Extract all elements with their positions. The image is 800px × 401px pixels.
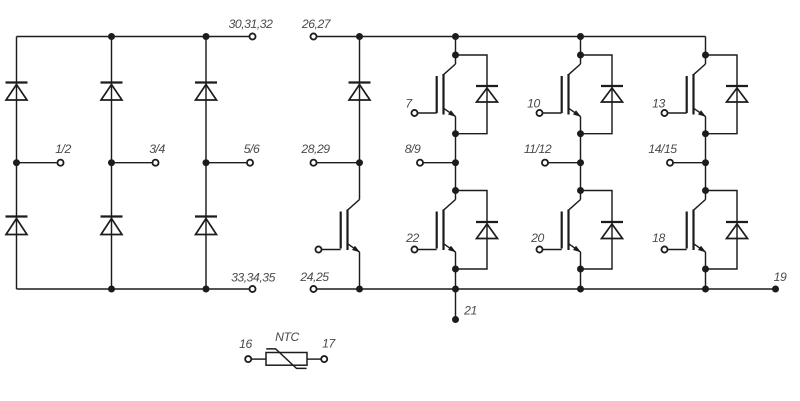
label 13	[652, 96, 665, 110]
svg-text:14/15: 14/15	[648, 142, 677, 156]
wire freewheel diode branch top leg 3	[706, 55, 738, 134]
node emitter junction bottom leg 1	[452, 266, 459, 273]
node emitter junction bottom leg 2	[577, 266, 584, 273]
wire freewheel diode branch top leg 1	[456, 55, 488, 134]
svg-text:NTC: NTC	[275, 330, 299, 344]
diode freewheel bottom leg 1	[476, 222, 498, 239]
node junction bottom bus	[108, 286, 115, 293]
terminal gate 20	[536, 246, 542, 252]
diode freewheel bottom leg 3	[726, 222, 748, 239]
wire auxiliary emitter lead 14/15	[673, 162, 705, 164]
wire rectifier leg 1 vertical	[16, 37, 18, 290]
diode freewheel bottom leg 2	[601, 222, 623, 239]
node emitter junction top leg 2	[577, 130, 584, 137]
diode rectifier bottom leg 1	[6, 217, 28, 235]
diode rectifier bottom leg 3	[195, 217, 217, 235]
label 30,31,32	[229, 17, 274, 31]
label 24,25	[299, 270, 329, 284]
terminal 16	[245, 356, 251, 362]
label 21	[463, 304, 477, 318]
node phase output junction leg 2	[577, 159, 584, 166]
node phase output junction leg 1	[452, 159, 459, 166]
wire auxiliary emitter lead 8/9	[423, 162, 455, 164]
terminal 5/6	[247, 160, 253, 166]
svg-text:1/2: 1/2	[55, 142, 71, 156]
wire DC+ top bus	[317, 36, 706, 38]
transistor IGBT bottom leg 2 (gate 20)	[562, 163, 581, 269]
node emitter junction top leg 1	[452, 130, 459, 137]
wire gate lead 18	[668, 249, 687, 251]
wire rectifier leg 3 vertical	[205, 37, 207, 290]
wire stub to terminal 21	[455, 289, 457, 320]
label 3/4	[149, 142, 165, 156]
terminal auxiliary 14/15	[667, 160, 673, 166]
node junction top bus	[203, 33, 210, 40]
node rectifier AC mid leg 2	[108, 159, 115, 166]
diode freewheel top leg 2	[601, 86, 623, 102]
svg-text:10: 10	[527, 96, 540, 110]
wire rectifier leg 2 vertical	[111, 37, 113, 290]
label 28,29	[300, 142, 330, 156]
svg-text:33,34,35: 33,34,35	[231, 271, 276, 285]
terminal gate 18	[661, 246, 667, 252]
node top bus junction leg 1	[452, 33, 459, 40]
wire rectifier positive top bus	[17, 36, 250, 38]
svg-text:22: 22	[405, 231, 419, 245]
wire NTC left lead	[251, 358, 266, 360]
terminal gate 22	[411, 246, 417, 252]
label 5/6	[244, 142, 260, 156]
node collector junction bottom leg 3	[702, 187, 709, 194]
svg-text:18: 18	[652, 231, 665, 245]
node brake top bus junction	[356, 33, 363, 40]
svg-text:8/9: 8/9	[405, 142, 421, 156]
wire rectifier negative bottom bus	[17, 288, 250, 290]
transistor IGBT top leg 1 (gate 7)	[437, 55, 456, 134]
label 26,27	[301, 17, 332, 31]
wire gate lead 10	[543, 112, 562, 114]
terminal brake gate	[315, 246, 321, 252]
node collector junction top leg 2	[577, 52, 584, 59]
svg-text:5/6: 5/6	[244, 142, 260, 156]
wire DC- bottom bus	[317, 288, 776, 290]
diode brake freewheel	[349, 83, 371, 101]
label 17	[322, 337, 336, 351]
label 33,34,35	[231, 271, 276, 285]
terminal 24,25	[310, 286, 316, 292]
wire freewheel diode branch bottom leg 2	[581, 191, 613, 270]
svg-text:3/4: 3/4	[149, 142, 165, 156]
wire AC input lead leg 2	[112, 162, 153, 164]
wire brake gate lead	[322, 249, 341, 251]
svg-text:13: 13	[652, 96, 665, 110]
transistor IGBT top leg 2 (gate 10)	[562, 55, 581, 134]
terminal 30,31,32	[249, 33, 255, 39]
wire NTC right lead	[307, 358, 321, 360]
wire top bus to collector leg 3	[705, 37, 707, 56]
node bottom bus junction leg 3	[702, 286, 709, 293]
wire freewheel diode branch top leg 2	[581, 55, 613, 134]
label 19	[774, 270, 787, 284]
terminal gate 10	[536, 110, 542, 116]
svg-text:26,27: 26,27	[301, 17, 332, 31]
label 7	[405, 96, 413, 110]
transistor IGBT top leg 3 (gate 13)	[687, 55, 706, 134]
wire emitter to bottom bus leg 2	[580, 269, 582, 289]
svg-text:24,25: 24,25	[299, 270, 329, 284]
terminal 17	[321, 356, 327, 362]
terminal 19 (solid)	[772, 286, 779, 293]
transistor IGBT bottom leg 1 (gate 22)	[437, 163, 456, 269]
node emitter junction top leg 3	[702, 130, 709, 137]
terminal gate 7	[411, 110, 417, 116]
transistor IGBT bottom leg 3 (gate 18)	[687, 163, 706, 269]
svg-text:21: 21	[463, 304, 477, 318]
svg-text:11/12: 11/12	[524, 142, 552, 156]
wire gate lead 13	[668, 112, 687, 114]
svg-text:17: 17	[322, 337, 336, 351]
wire emitter to phase node leg 2	[580, 134, 582, 163]
node junction top bus	[108, 33, 115, 40]
node bottom bus junction leg 2	[577, 286, 584, 293]
diode rectifier top leg 2	[101, 83, 123, 101]
diode rectifier bottom leg 2	[101, 217, 123, 235]
node rectifier AC mid leg 3	[203, 159, 210, 166]
wire top bus to collector leg 1	[455, 37, 457, 56]
diode rectifier top leg 3	[195, 83, 217, 101]
label 11/12	[524, 142, 552, 156]
terminal 33,34,35	[249, 286, 255, 292]
label 1/2	[55, 142, 71, 156]
diode freewheel top leg 1	[476, 86, 498, 102]
terminal 26,27	[310, 33, 316, 39]
terminal gate 13	[661, 110, 667, 116]
node bottom bus junction leg 1	[452, 286, 459, 293]
svg-text:16: 16	[239, 337, 252, 351]
node brake mid junction 28,29	[356, 159, 363, 166]
label NTC	[275, 330, 299, 344]
wire lead to terminal 28,29	[317, 162, 360, 164]
wire gate lead 20	[543, 249, 562, 251]
label 14/15	[648, 142, 677, 156]
terminal auxiliary 11/12	[542, 160, 548, 166]
diode rectifier top leg 1	[6, 83, 28, 101]
wire gate lead 22	[418, 249, 437, 251]
node brake emitter bottom bus junction	[356, 286, 363, 293]
svg-text:20: 20	[530, 231, 544, 245]
wire AC input lead leg 1	[17, 162, 58, 164]
label 22	[405, 231, 419, 245]
label 18	[652, 231, 665, 245]
wire emitter to phase node leg 1	[455, 134, 457, 163]
node top bus junction leg 2	[577, 33, 584, 40]
transistor brake IGBT	[341, 163, 360, 289]
diode freewheel top leg 3	[726, 86, 748, 102]
terminal 28,29	[310, 160, 316, 166]
thermistor NTC body	[266, 349, 307, 369]
wire gate lead 7	[418, 112, 437, 114]
wire emitter to phase node leg 3	[705, 134, 707, 163]
node collector junction bottom leg 1	[452, 187, 459, 194]
node emitter junction bottom leg 3	[702, 266, 709, 273]
node phase output junction leg 3	[702, 159, 709, 166]
svg-text:19: 19	[774, 270, 787, 284]
terminal 1/2	[57, 160, 63, 166]
wire emitter to bottom bus leg 3	[705, 269, 707, 289]
node collector junction bottom leg 2	[577, 187, 584, 194]
svg-text:28,29: 28,29	[300, 142, 330, 156]
wire AC input lead leg 3	[206, 162, 247, 164]
wire top bus to collector leg 2	[580, 37, 582, 56]
label 16	[239, 337, 252, 351]
label 20	[530, 231, 544, 245]
label 8/9	[405, 142, 421, 156]
node collector junction top leg 3	[702, 52, 709, 59]
label 10	[527, 96, 540, 110]
node rectifier AC mid leg 1	[13, 159, 20, 166]
wire freewheel diode branch bottom leg 3	[706, 191, 738, 270]
terminal auxiliary 8/9	[417, 160, 423, 166]
wire emitter to bottom bus leg 1	[455, 269, 457, 289]
svg-text:7: 7	[405, 96, 413, 110]
wire auxiliary emitter lead 11/12	[548, 162, 580, 164]
node collector junction top leg 1	[452, 52, 459, 59]
wire brake leg upper vertical	[359, 37, 361, 163]
wire freewheel diode branch bottom leg 1	[456, 191, 488, 270]
svg-text:30,31,32: 30,31,32	[229, 17, 274, 31]
node junction bottom bus	[203, 286, 210, 293]
terminal 3/4	[152, 160, 158, 166]
terminal 21 (solid)	[452, 316, 459, 323]
